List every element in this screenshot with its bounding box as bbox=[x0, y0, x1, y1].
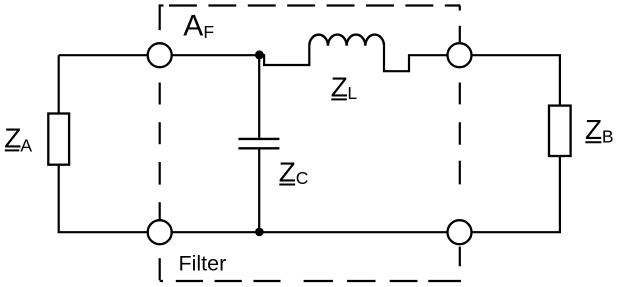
svg-text:L: L bbox=[347, 83, 357, 103]
terminal circle bottom-right bbox=[448, 220, 472, 244]
filter boundary dashed top edge bbox=[169, 4, 460, 6]
terminal circle top-right bbox=[448, 43, 472, 67]
wire: top rail from left loop through node to step bbox=[59, 54, 264, 56]
svg-text:Z: Z bbox=[4, 123, 21, 154]
svg-text:A: A bbox=[20, 135, 32, 155]
wire: capacitor branch lower bbox=[258, 149, 260, 232]
wire: right vertical below ZB and bottom rail bbox=[160, 156, 560, 232]
wire: step down from node to inductor lead bbox=[264, 46, 309, 65]
impedance ZB box bbox=[549, 106, 571, 156]
inductor ZL (4 humps) bbox=[309, 35, 384, 46]
capacitor ZC bottom plate bbox=[238, 147, 279, 149]
svg-text:Z: Z bbox=[331, 71, 348, 102]
wire: left loop verticals and bottom-left segment bbox=[58, 55, 160, 233]
terminal circle top-left bbox=[148, 43, 172, 67]
wire: capacitor branch upper bbox=[258, 55, 260, 138]
svg-text:C: C bbox=[296, 168, 309, 188]
junction dot bottom node bbox=[255, 228, 264, 237]
svg-text:F: F bbox=[203, 22, 214, 42]
wire: step after inductor to right rail and down to ZB bbox=[384, 46, 560, 106]
svg-text:B: B bbox=[602, 126, 614, 146]
impedance ZA box bbox=[48, 114, 69, 165]
junction dot top node bbox=[255, 50, 264, 59]
svg-text:A: A bbox=[183, 10, 203, 43]
filter boundary dashed left edge bbox=[160, 4, 164, 281]
filter boundary dashed right edge bbox=[459, 6, 461, 267]
svg-text:Z: Z bbox=[585, 114, 602, 145]
svg-text:Filter: Filter bbox=[179, 252, 227, 276]
capacitor ZC top plate bbox=[238, 138, 279, 140]
filter boundary dashed bottom edge bbox=[176, 280, 461, 282]
terminal circle bottom-left bbox=[148, 220, 172, 244]
svg-text:Z: Z bbox=[279, 156, 296, 187]
